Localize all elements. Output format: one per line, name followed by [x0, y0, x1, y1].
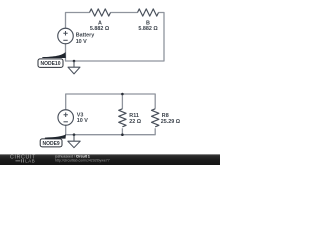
svg-text:LAB: LAB [25, 158, 35, 163]
wire R8 bottom along bottom back to V3 [66, 125, 156, 135]
junction dot R11 top [121, 93, 124, 96]
svg-text:25.29 Ω: 25.29 Ω [161, 119, 181, 125]
svg-text:22 Ω: 22 Ω [129, 119, 141, 125]
node label NODE9 [40, 139, 62, 147]
svg-text:Battery: Battery [76, 33, 95, 39]
node flag NODE9 [45, 134, 66, 138]
ground (lower circuit) [68, 135, 80, 148]
wire battery top to resistor A [66, 13, 90, 29]
wire R11 bottom lead [121, 128, 123, 134]
svg-text:10 V: 10 V [76, 39, 87, 45]
voltage source V3 [58, 110, 74, 126]
resistor A [90, 9, 111, 16]
resistor R8 [152, 109, 159, 127]
wire between resistor A and resistor B [111, 12, 138, 14]
node flag NODE10 [42, 52, 66, 58]
svg-text:http://circuitlab.com/c/4292tb: http://circuitlab.com/c/4292tbywe77 [55, 159, 110, 163]
resistor R11 [119, 109, 126, 127]
wire resistor B right side down and bottom back to battery [66, 13, 165, 62]
ground (top circuit) [68, 61, 80, 74]
junction dot R11 bottom [121, 133, 124, 136]
svg-text:10 V: 10 V [77, 118, 88, 124]
node label NODE10 [38, 59, 63, 68]
CircuitLab logo capacitor symbol [16, 159, 24, 162]
junction dot top circuit ground [73, 60, 76, 63]
wire V3 top to R8 top [66, 94, 156, 110]
resistor B [138, 9, 159, 16]
svg-text:NODE9: NODE9 [42, 141, 59, 147]
svg-text:5.882 Ω: 5.882 Ω [90, 26, 110, 32]
wire R11 top lead [121, 94, 123, 109]
junction dot lower ground [73, 133, 76, 136]
svg-text:NODE10: NODE10 [40, 61, 60, 67]
voltage source Battery [58, 28, 74, 44]
svg-text:5.882 Ω: 5.882 Ω [138, 26, 158, 32]
